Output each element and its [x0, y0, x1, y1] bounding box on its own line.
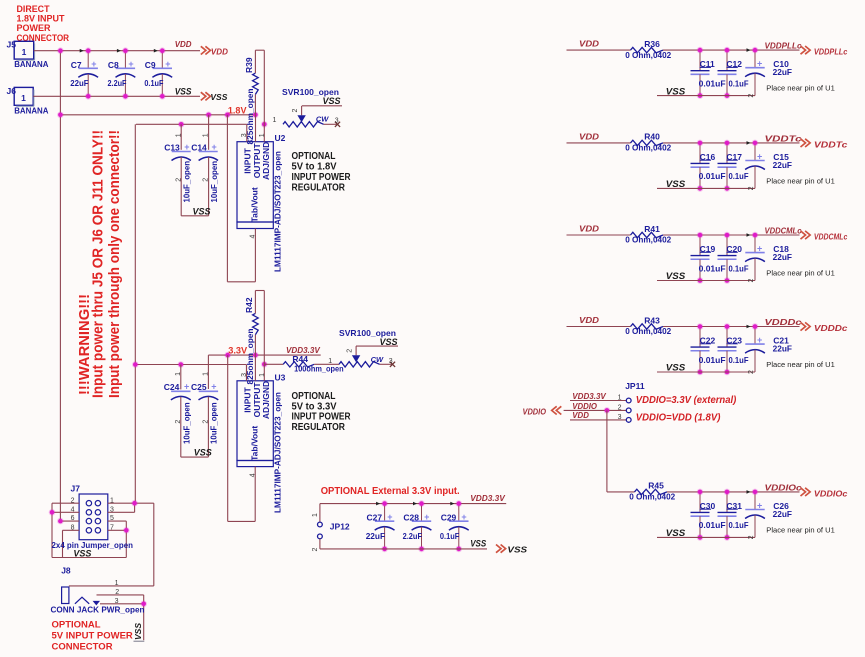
svg-text:VSS: VSS — [666, 528, 685, 538]
svg-text:3: 3 — [618, 414, 622, 421]
svg-text:6: 6 — [71, 515, 75, 522]
svg-text:2: 2 — [347, 349, 354, 353]
svg-text:22uF: 22uF — [773, 509, 792, 519]
svg-text:VDDIOc: VDDIOc — [765, 482, 802, 492]
svg-text:VSS: VSS — [507, 545, 527, 555]
svg-text:+: + — [757, 244, 762, 254]
svg-text:VDDTc: VDDTc — [814, 140, 848, 150]
svg-text:2: 2 — [203, 178, 210, 182]
svg-text:5V to 1.8V: 5V to 1.8V — [292, 162, 337, 173]
svg-text:22uF: 22uF — [773, 160, 792, 170]
svg-text:VDD3.3V: VDD3.3V — [572, 391, 607, 401]
svg-text:OPTIONAL: OPTIONAL — [292, 391, 336, 402]
svg-text:J5: J5 — [7, 40, 17, 50]
svg-text:2: 2 — [748, 186, 755, 190]
svg-text:VSS: VSS — [193, 206, 211, 216]
svg-text:0 Ohm,0402: 0 Ohm,0402 — [625, 326, 671, 336]
svg-text:C13: C13 — [164, 142, 180, 152]
svg-text:CW: CW — [316, 115, 329, 124]
svg-text:C28: C28 — [403, 512, 419, 522]
svg-text:REGULATOR: REGULATOR — [292, 422, 346, 433]
svg-text:VDDDc: VDDDc — [765, 317, 802, 327]
svg-text:0.01uF: 0.01uF — [699, 263, 726, 273]
svg-text:3: 3 — [335, 118, 339, 125]
svg-text:R40: R40 — [644, 132, 660, 142]
svg-text:LM1117IMP-ADJ/SOT223_open: LM1117IMP-ADJ/SOT223_open — [273, 151, 283, 272]
svg-text:2: 2 — [312, 548, 319, 552]
svg-text:VDDIO=3.3V (external): VDDIO=3.3V (external) — [636, 394, 737, 406]
svg-text:1: 1 — [110, 497, 114, 504]
svg-text:VSS: VSS — [323, 96, 341, 106]
svg-text:VSS: VSS — [175, 86, 192, 96]
svg-text:10uF_open: 10uF_open — [209, 161, 219, 203]
svg-text:2: 2 — [115, 589, 119, 596]
svg-text:R36: R36 — [644, 39, 660, 49]
svg-text:100ohm_open: 100ohm_open — [294, 364, 344, 374]
svg-text:J8: J8 — [61, 565, 71, 575]
svg-text:C8: C8 — [108, 60, 119, 70]
svg-text:4: 4 — [249, 473, 256, 477]
svg-text:0.01uF: 0.01uF — [699, 171, 726, 181]
svg-text:0.1uF: 0.1uF — [729, 520, 749, 530]
svg-text:+: + — [387, 512, 392, 522]
svg-text:2: 2 — [748, 94, 755, 98]
svg-text:VSS: VSS — [666, 86, 685, 96]
svg-text:0.1uF: 0.1uF — [144, 78, 163, 88]
svg-text:OPTIONAL External 3.3V input.: OPTIONAL External 3.3V input. — [321, 485, 460, 497]
svg-text:2: 2 — [71, 497, 75, 504]
svg-text:OPTIONAL: OPTIONAL — [292, 151, 336, 162]
svg-text:0.01uF: 0.01uF — [699, 78, 726, 88]
svg-text:+: + — [184, 142, 189, 152]
svg-text:0.1uF: 0.1uF — [729, 355, 749, 365]
svg-text:22uF: 22uF — [773, 67, 792, 77]
svg-text:0.01uF: 0.01uF — [699, 520, 726, 530]
svg-text:1: 1 — [115, 580, 119, 587]
svg-text:VDD: VDD — [579, 39, 599, 49]
svg-text:1: 1 — [618, 395, 622, 402]
svg-text:22uF: 22uF — [70, 78, 88, 88]
svg-text:CONN JACK PWR_open: CONN JACK PWR_open — [51, 604, 145, 614]
svg-text:3: 3 — [389, 358, 393, 365]
svg-text:2: 2 — [748, 370, 755, 374]
svg-text:1: 1 — [21, 93, 26, 103]
svg-text:VSS: VSS — [194, 448, 212, 458]
svg-text:ADJ/GND: ADJ/GND — [261, 142, 271, 180]
svg-text:VDDCMLc: VDDCMLc — [765, 225, 802, 235]
svg-text:22uF: 22uF — [773, 344, 792, 354]
svg-text:J6: J6 — [7, 86, 17, 96]
svg-text:2x4 pin Jumper_open: 2x4 pin Jumper_open — [52, 540, 134, 550]
svg-text:J7: J7 — [71, 484, 81, 494]
svg-text:+: + — [184, 382, 189, 392]
svg-text:CONNECTOR: CONNECTOR — [17, 33, 70, 44]
svg-text:0.1uF: 0.1uF — [440, 531, 459, 541]
svg-text:C24: C24 — [164, 382, 180, 392]
svg-text:1: 1 — [259, 133, 266, 137]
svg-text:VDD: VDD — [579, 132, 599, 142]
svg-text:4: 4 — [250, 235, 257, 239]
svg-text:2: 2 — [618, 405, 622, 412]
svg-text:R42: R42 — [244, 297, 254, 313]
svg-text:VDDIOc: VDDIOc — [814, 489, 848, 499]
svg-text:10uF_open: 10uF_open — [181, 403, 191, 445]
svg-text:1: 1 — [175, 133, 182, 137]
svg-text:2: 2 — [748, 535, 755, 539]
svg-text:VDD: VDD — [211, 46, 228, 56]
svg-text:+: + — [91, 59, 96, 69]
svg-text:22uF: 22uF — [366, 531, 385, 541]
svg-text:Place near pin of U1: Place near pin of U1 — [766, 525, 835, 534]
svg-text:R39: R39 — [244, 57, 254, 73]
svg-text:VDD: VDD — [572, 410, 589, 420]
svg-text:VDDPLLc: VDDPLLc — [814, 47, 848, 57]
svg-text:3: 3 — [241, 373, 248, 377]
svg-text:VDD: VDD — [175, 39, 192, 49]
svg-text:0.1uF: 0.1uF — [729, 171, 749, 181]
svg-text:+: + — [757, 59, 762, 69]
svg-text:R43: R43 — [644, 315, 660, 325]
svg-text:INPUT POWER: INPUT POWER — [292, 412, 352, 423]
svg-text:1: 1 — [202, 372, 209, 376]
svg-text:U3: U3 — [275, 372, 286, 382]
svg-text:VDDCMLc: VDDCMLc — [814, 232, 848, 242]
svg-text:INPUT POWER: INPUT POWER — [292, 172, 352, 183]
svg-text:0 Ohm,0402: 0 Ohm,0402 — [625, 235, 671, 245]
svg-text:VDDIO=VDD (1.8V): VDDIO=VDD (1.8V) — [636, 412, 721, 424]
svg-text:Tab/Vout: Tab/Vout — [250, 426, 260, 461]
svg-text:Place near pin of U1: Place near pin of U1 — [766, 360, 835, 369]
svg-text:+: + — [757, 152, 762, 162]
svg-text:1: 1 — [312, 513, 319, 517]
svg-text:VDDIO: VDDIO — [523, 407, 547, 417]
svg-text:1: 1 — [273, 117, 277, 124]
svg-text:REGULATOR: REGULATOR — [292, 182, 346, 193]
svg-text:CONNECTOR: CONNECTOR — [52, 641, 113, 652]
svg-text:5V INPUT POWER: 5V INPUT POWER — [52, 630, 133, 641]
svg-text:Place near pin of U1: Place near pin of U1 — [766, 176, 835, 185]
svg-text:U2: U2 — [275, 133, 286, 143]
svg-text:C14: C14 — [191, 142, 207, 152]
svg-text:CW: CW — [371, 355, 384, 364]
svg-text:10uF_open: 10uF_open — [209, 403, 219, 445]
svg-text:2: 2 — [175, 178, 182, 182]
svg-text:VSS: VSS — [210, 92, 227, 102]
svg-text:BANANA: BANANA — [14, 59, 48, 69]
svg-text:+: + — [128, 59, 133, 69]
svg-text:2.2uF: 2.2uF — [403, 531, 422, 541]
svg-text:VDDDc: VDDDc — [814, 323, 848, 333]
svg-text:C27: C27 — [367, 512, 383, 522]
svg-text:0 Ohm,0402: 0 Ohm,0402 — [625, 143, 671, 153]
svg-text:0 Ohm,0402: 0 Ohm,0402 — [625, 50, 671, 60]
svg-text:VDD: VDD — [579, 315, 599, 325]
svg-text:VDD3.3V: VDD3.3V — [470, 493, 506, 503]
svg-text:5: 5 — [110, 515, 114, 522]
svg-text:Place near pin of U1: Place near pin of U1 — [766, 268, 835, 277]
svg-text:1: 1 — [203, 133, 210, 137]
svg-text:VSS: VSS — [470, 539, 486, 549]
svg-text:Place near pin of U1: Place near pin of U1 — [766, 84, 835, 93]
svg-text:+: + — [757, 501, 762, 511]
svg-text:R41: R41 — [644, 224, 660, 234]
svg-text:2: 2 — [748, 279, 755, 283]
svg-text:ADJ/GND: ADJ/GND — [261, 381, 271, 419]
svg-text:JP11: JP11 — [625, 381, 645, 391]
svg-text:Input power thru J5 OR J6 OR J: Input power thru J5 OR J6 OR J11 ONLY!! — [91, 130, 107, 398]
svg-text:Tab/Vout: Tab/Vout — [250, 187, 260, 222]
svg-text:3: 3 — [241, 133, 248, 137]
svg-text:+: + — [165, 59, 170, 69]
svg-text:4: 4 — [71, 506, 75, 513]
svg-text:2: 2 — [292, 109, 299, 113]
svg-text:JP12: JP12 — [330, 521, 350, 531]
svg-text:1: 1 — [22, 47, 27, 57]
svg-text:7: 7 — [110, 524, 114, 531]
svg-text:C29: C29 — [441, 512, 457, 522]
svg-text:VSS: VSS — [666, 179, 685, 189]
svg-text:C25: C25 — [191, 382, 207, 392]
svg-text:1: 1 — [259, 373, 266, 377]
svg-text:VSS: VSS — [73, 549, 91, 559]
svg-text:R45: R45 — [648, 481, 664, 491]
svg-text:22uF: 22uF — [773, 252, 792, 262]
svg-text:0.1uF: 0.1uF — [729, 263, 749, 273]
svg-text:1: 1 — [175, 372, 182, 376]
svg-text:2.2uF: 2.2uF — [108, 78, 127, 88]
svg-text:C7: C7 — [71, 60, 82, 70]
svg-text:R44: R44 — [292, 354, 308, 364]
svg-text:BANANA: BANANA — [14, 106, 48, 116]
svg-text:VDD: VDD — [579, 224, 599, 234]
svg-text:VSS: VSS — [380, 337, 398, 347]
svg-text:Input power through only one c: Input power through only one connector!! — [107, 130, 123, 398]
svg-text:0.01uF: 0.01uF — [699, 355, 726, 365]
svg-text:+: + — [461, 512, 466, 522]
svg-text:0 Ohm,0402: 0 Ohm,0402 — [629, 492, 675, 502]
svg-text:+: + — [757, 335, 762, 345]
svg-text:10uF_open: 10uF_open — [182, 161, 192, 203]
svg-text:3: 3 — [110, 506, 114, 513]
svg-text:VSS: VSS — [133, 623, 143, 640]
svg-text:5V to 3.3V: 5V to 3.3V — [292, 401, 337, 412]
svg-text:C9: C9 — [145, 60, 156, 70]
svg-text:8: 8 — [71, 524, 75, 531]
svg-text:OPTIONAL: OPTIONAL — [52, 619, 101, 630]
svg-text:0.1uF: 0.1uF — [729, 78, 749, 88]
svg-text:2: 2 — [175, 420, 182, 424]
svg-text:2: 2 — [202, 420, 209, 424]
svg-text:1: 1 — [328, 358, 332, 365]
svg-text:VDDPLLc: VDDPLLc — [765, 41, 802, 51]
svg-text:VSS: VSS — [666, 271, 685, 281]
svg-text:VSS: VSS — [666, 363, 685, 373]
svg-text:VDDTc: VDDTc — [765, 133, 802, 143]
svg-text:+: + — [424, 512, 429, 522]
svg-text:LM1117IMP-ADJ/SOT223_open: LM1117IMP-ADJ/SOT223_open — [273, 392, 283, 513]
svg-text:+: + — [212, 142, 217, 152]
svg-text:+: + — [211, 382, 216, 392]
